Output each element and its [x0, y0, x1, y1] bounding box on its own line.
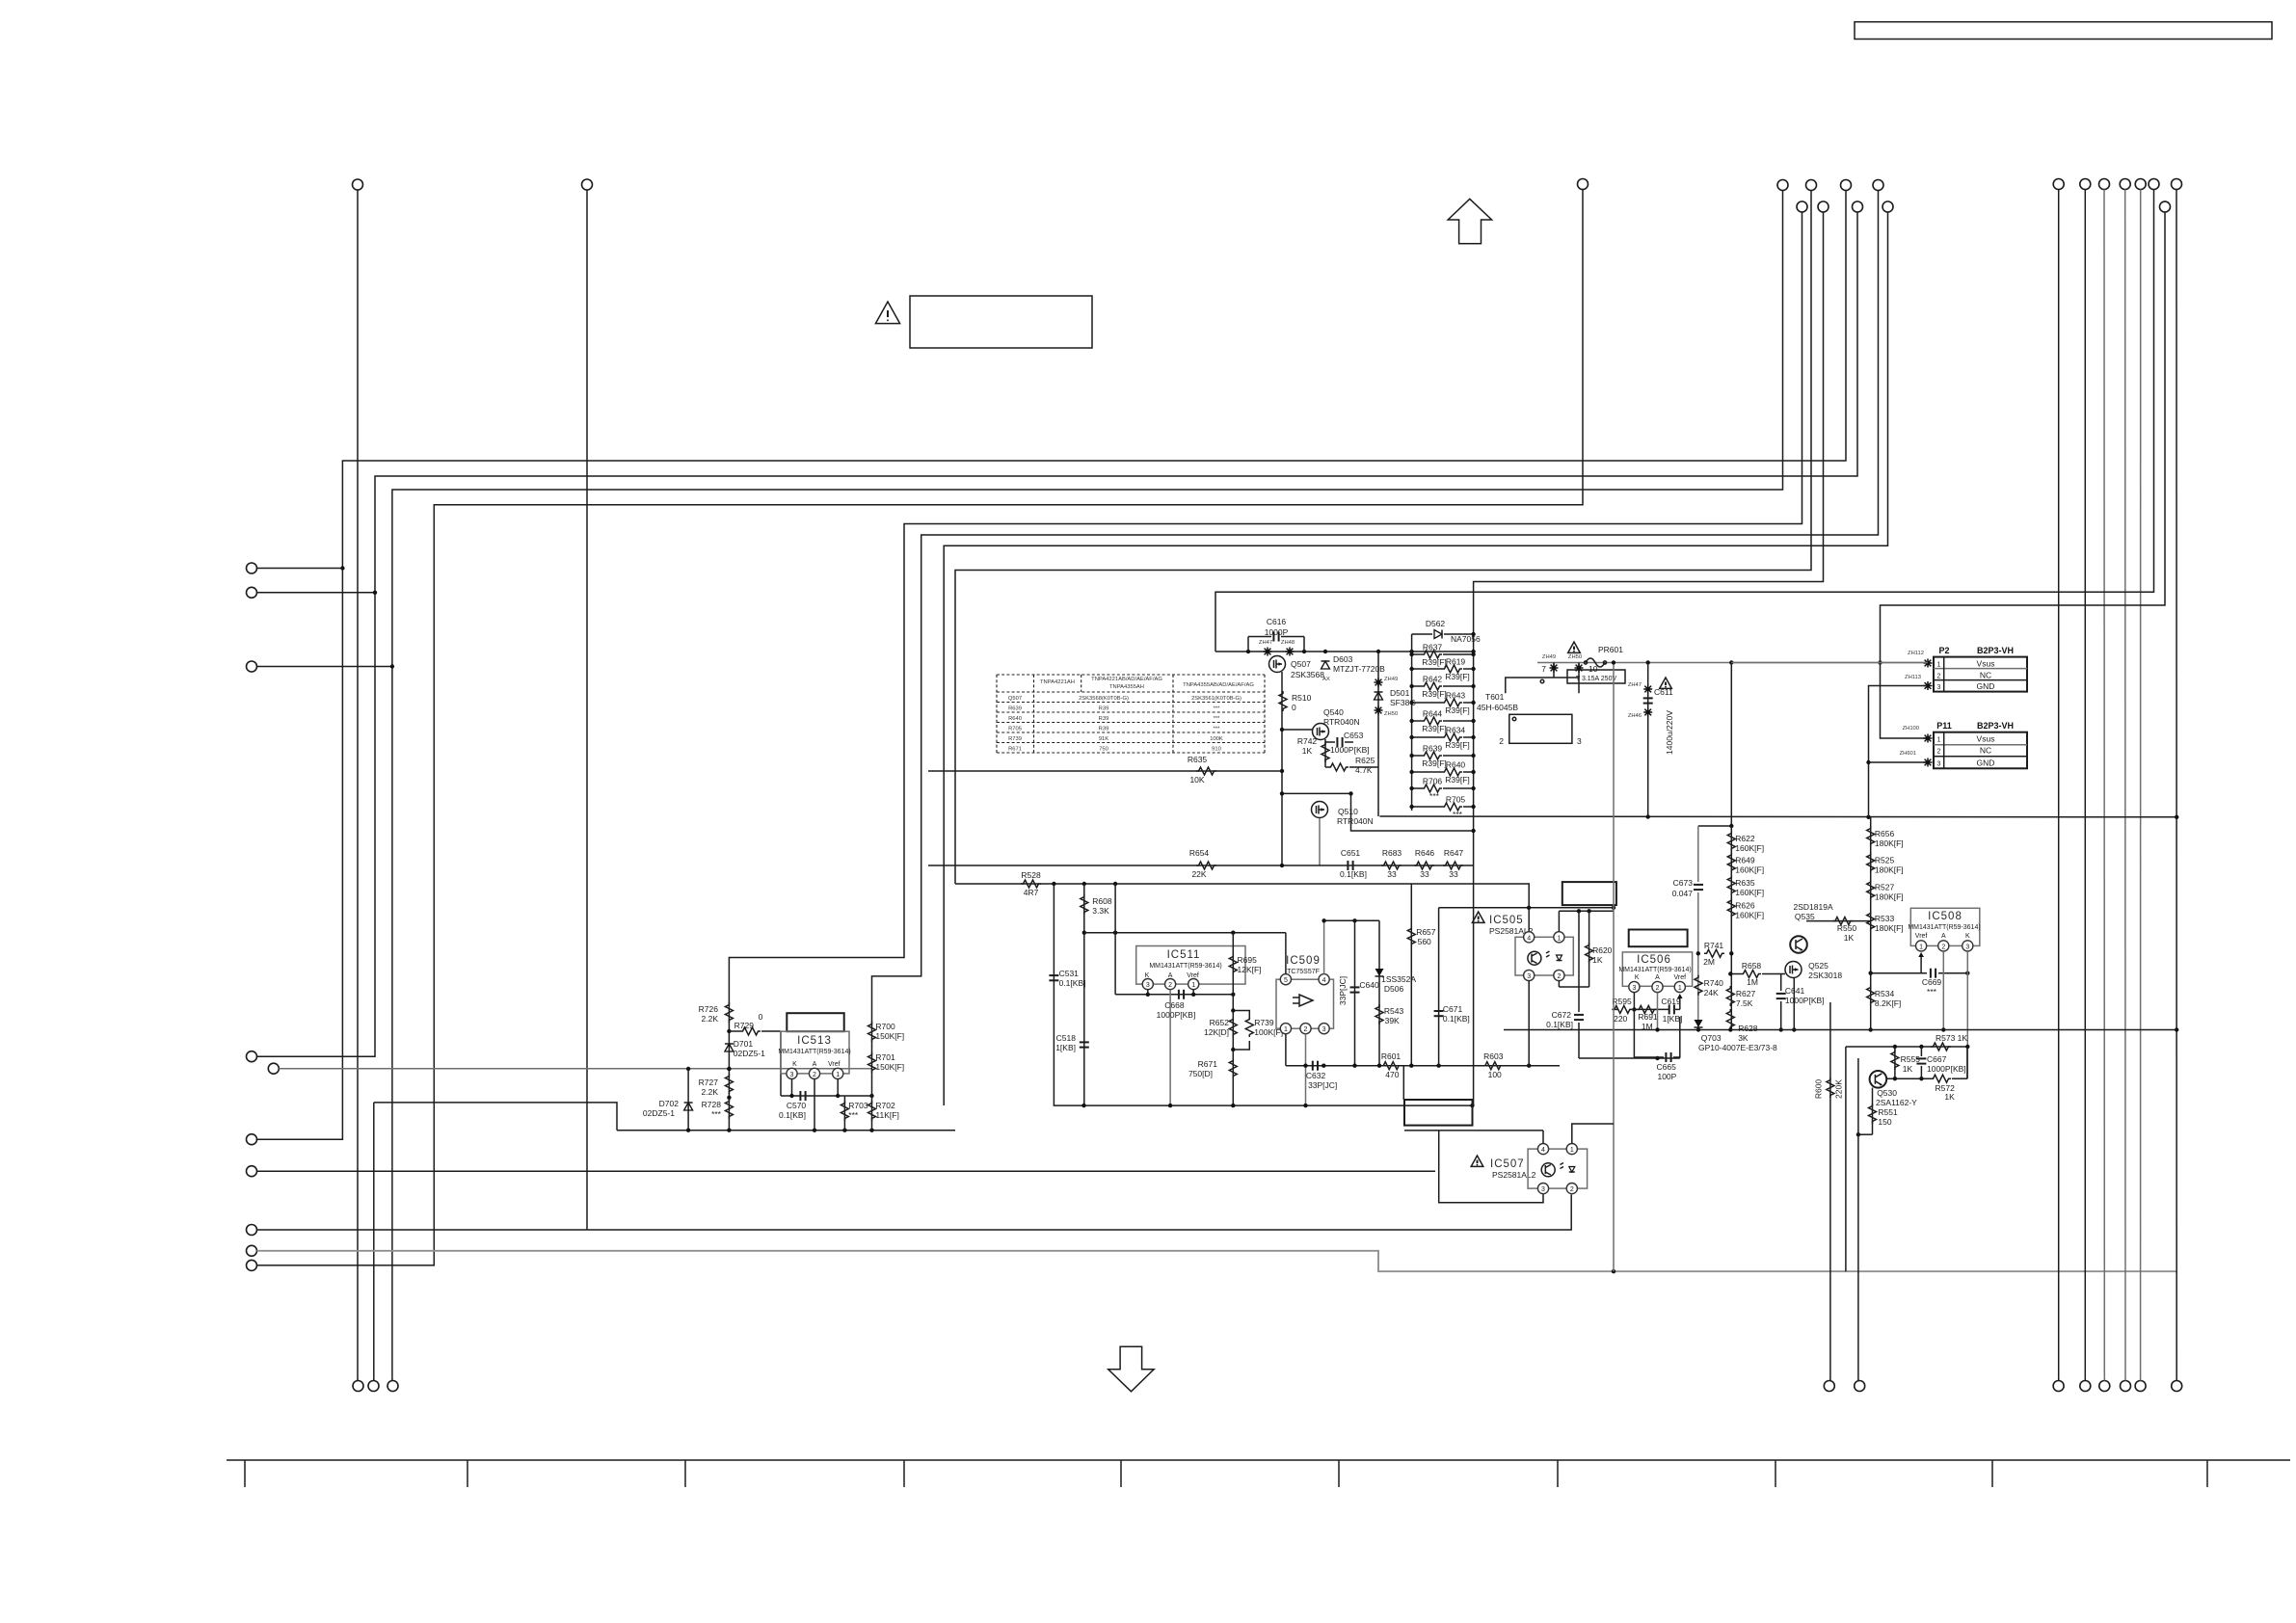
svg-text:C616: C616 — [1267, 617, 1287, 626]
svg-text:2SA1162-Y: 2SA1162-Y — [1876, 1098, 1917, 1107]
IC508 pin 1 — [1916, 941, 1927, 951]
wire IC509 pin4 up gray — [1323, 920, 1325, 973]
resistor R700 150K[F] — [868, 1022, 876, 1042]
svg-text:R740: R740 — [1704, 978, 1724, 988]
svg-text:ZH601: ZH601 — [1900, 751, 1916, 757]
svg-text:P2: P2 — [1938, 646, 1949, 655]
wire x1456 riser — [1402, 1066, 1404, 1100]
svg-text:R705: R705 — [1008, 726, 1022, 732]
svg-text:R608: R608 — [1092, 896, 1112, 906]
resistor R510 — [1279, 691, 1287, 711]
svg-text:TNPA4355AH: TNPA4355AH — [1109, 684, 1144, 690]
wire IC513 pins bottom loop — [781, 1095, 844, 1097]
resistor R628 3K — [1726, 1009, 1734, 1029]
svg-text:750: 750 — [1099, 746, 1108, 752]
svg-text:MM1431ATT(R59-3614): MM1431ATT(R59-3614) — [778, 1049, 850, 1055]
svg-text:K: K — [792, 1061, 797, 1068]
svg-text:T601: T601 — [1485, 692, 1505, 702]
wire ladder left rail — [1411, 634, 1413, 811]
terminal circle left 8 — [247, 1225, 257, 1236]
svg-text:ZH112: ZH112 — [1908, 651, 1924, 656]
fuse PR601 — [1568, 642, 1581, 652]
svg-text:0.1[KB]: 0.1[KB] — [1340, 869, 1367, 879]
svg-text:C672: C672 — [1552, 1010, 1572, 1020]
svg-text:22K: 22K — [1191, 869, 1206, 879]
capacitor C640 33P[JC] — [1350, 987, 1360, 992]
terminal circle top row2 — [1818, 201, 1829, 212]
resistor R647 33 — [1443, 862, 1463, 869]
capacitor C619 1[KB] — [1669, 1004, 1674, 1014]
resistor R742 1K — [1322, 742, 1329, 762]
svg-text:ZH48: ZH48 — [1281, 640, 1295, 646]
svg-text:1400u/220V: 1400u/220V — [1665, 710, 1674, 755]
wire D603 down to D501 — [1377, 652, 1379, 816]
svg-text:150K[F]: 150K[F] — [875, 1062, 904, 1072]
IC509 pin 4 — [1319, 974, 1329, 985]
resistor R600 220K vertical — [1829, 1002, 1831, 1381]
IC507 opto body — [1528, 1149, 1588, 1188]
svg-text:0: 0 — [759, 1012, 763, 1022]
resistor R626 160K[F] — [1727, 898, 1735, 918]
IC509 pin 1 — [1280, 1024, 1291, 1034]
svg-text:5: 5 — [1284, 977, 1288, 984]
svg-text:P11: P11 — [1936, 721, 1952, 731]
svg-text:1: 1 — [1919, 944, 1923, 950]
wire Q510 gate — [1282, 792, 1351, 794]
terminal circle bottom — [368, 1381, 379, 1392]
wire right bus 2258 vertical — [2176, 190, 2177, 1381]
svg-text:160K[F]: 160K[F] — [1735, 843, 1764, 853]
IC511 pin 1 — [1188, 979, 1199, 990]
wire terminal L6 row — [257, 1170, 1436, 1172]
svg-text:4R7: 4R7 — [1024, 888, 1039, 897]
terminal circle top row1 — [1777, 180, 1788, 191]
svg-text:MM1431ATT(R59-3614): MM1431ATT(R59-3614) — [1618, 967, 1691, 973]
wire fuse rail gray y687 — [1537, 662, 1931, 664]
IC511 MM1431ATT(R59-3614) — [1136, 946, 1245, 985]
IC509 pin 3 — [1319, 1024, 1329, 1034]
wire bottom rail y898 — [928, 865, 1474, 866]
svg-text:NC: NC — [1980, 746, 1991, 756]
wire net G — [944, 212, 1887, 1105]
wire bus X1 vertical — [357, 190, 359, 1381]
IC507 led — [1569, 1167, 1575, 1173]
svg-text:ZH47: ZH47 — [1259, 640, 1272, 646]
svg-text:A: A — [1655, 974, 1660, 981]
resistor R573 1K — [1931, 1043, 1951, 1051]
svg-text:C665: C665 — [1657, 1062, 1677, 1072]
svg-text:PR601: PR601 — [1598, 645, 1623, 654]
svg-text:PS2581AL2: PS2581AL2 — [1492, 1170, 1536, 1180]
terminal circle top right — [2149, 179, 2159, 190]
svg-text:R739: R739 — [1008, 736, 1022, 742]
capacitor C672 0.1[KB] — [1578, 911, 1580, 1012]
resistor R695 12K[F] — [1232, 933, 1234, 1105]
svg-text:C611: C611 — [1654, 687, 1673, 697]
terminal circle bottom — [1855, 1381, 1865, 1392]
resistor R635 10K — [1196, 767, 1216, 775]
wire net y628 (bus 2246 to P11 pin1) — [1881, 212, 2166, 738]
svg-text:R619: R619 — [1446, 657, 1466, 667]
svg-text:ZH50: ZH50 — [1568, 654, 1582, 660]
terminal circle top row2 — [1853, 201, 1863, 212]
terminal circle bottom — [2121, 1381, 2131, 1392]
IC513 pin 3 — [787, 1068, 797, 1078]
svg-text:D701: D701 — [734, 1039, 754, 1049]
svg-text:ZH49: ZH49 — [1384, 677, 1398, 682]
wire IC511 pin3 stub — [1147, 990, 1149, 995]
diode D701 02DZ5.1 — [725, 1044, 734, 1051]
svg-text:1M: 1M — [1747, 977, 1758, 987]
wire riser to bottom terminal 1929 — [1857, 1058, 1859, 1381]
terminal circle top right — [2172, 179, 2182, 190]
IC507 pin 4 — [1537, 1144, 1548, 1155]
warning note box — [910, 296, 1092, 348]
svg-text:1: 1 — [1937, 662, 1941, 669]
svg-text:R635: R635 — [1188, 755, 1208, 764]
svg-text:***: *** — [1429, 791, 1440, 801]
svg-text:C669: C669 — [1922, 977, 1942, 987]
svg-text:2SK3561(K0T0B-G): 2SK3561(K0T0B-G) — [1191, 696, 1241, 702]
terminal circle left 4 — [247, 1051, 257, 1062]
svg-text:2: 2 — [1937, 749, 1941, 756]
resistor R649 160K[F] — [1727, 852, 1735, 872]
resistor R550 1K — [1832, 918, 1853, 925]
terminal circle left 1 — [247, 563, 257, 573]
wire Q507 top rail y676 — [1215, 651, 1474, 652]
ruler tick 8 — [1775, 1460, 1776, 1487]
IC507 pin 3 — [1537, 1184, 1548, 1194]
svg-text:C632: C632 — [1306, 1071, 1326, 1080]
jumper ZH112 at P2 pin1 — [1924, 659, 1933, 668]
svg-text:100: 100 — [1488, 1070, 1502, 1079]
svg-text:R39: R39 — [1099, 716, 1109, 722]
svg-text:1000P[KB]: 1000P[KB] — [1927, 1064, 1966, 1074]
svg-text:B2P3-VH: B2P3-VH — [1977, 721, 2014, 731]
svg-text:R658: R658 — [1742, 961, 1762, 971]
IC507 warning label — [1471, 1156, 1483, 1166]
ruler tick 7 — [1557, 1460, 1559, 1487]
ruler tick 1 — [244, 1460, 246, 1487]
terminal circle top right — [2120, 179, 2130, 190]
wire Q535 collector to R550 — [1806, 920, 1871, 922]
resistor R701 150K[F] — [868, 1052, 876, 1073]
svg-text:0.1[KB]: 0.1[KB] — [1546, 1020, 1573, 1029]
wire R729 to IC513 box — [780, 1031, 782, 1096]
svg-text:1: 1 — [1937, 737, 1941, 744]
wire R528 row y917 — [955, 883, 1530, 885]
svg-text:R635: R635 — [1735, 878, 1755, 888]
svg-text:R706: R706 — [1423, 777, 1443, 786]
svg-text:R643: R643 — [1446, 691, 1466, 701]
svg-text:R626: R626 — [1735, 901, 1755, 911]
wire C640 column — [1354, 920, 1356, 1065]
svg-text:R628: R628 — [1738, 1024, 1758, 1033]
resistor R741 2M — [1704, 949, 1724, 957]
svg-text:R639: R639 — [1008, 705, 1022, 711]
wire IC506 pin3 down — [1633, 993, 1635, 1010]
wire right chain R656 column — [1870, 817, 1872, 973]
resistor R739 100K[F] parallel — [1233, 1011, 1249, 1020]
svg-text:R654: R654 — [1189, 848, 1210, 858]
svg-text:910: 910 — [1212, 746, 1221, 752]
svg-text:2M: 2M — [1703, 957, 1715, 967]
svg-text:D506: D506 — [1384, 984, 1404, 994]
wire IC505 pin1 up — [1558, 911, 1560, 931]
resistor R533 180K[F] — [1867, 911, 1875, 931]
wire R573 row — [1846, 1046, 1967, 1048]
transistor Q530 2SA1162-Y — [1870, 1071, 1887, 1088]
svg-text:R671: R671 — [1008, 746, 1022, 752]
wire y941 row — [1439, 907, 1614, 909]
wire vertical x1796 fuse to ladder — [1730, 663, 1732, 827]
svg-text:1K: 1K — [1844, 933, 1855, 943]
svg-text:***: *** — [1214, 726, 1221, 732]
svg-text:R727: R727 — [699, 1078, 719, 1087]
wire net B — [257, 212, 1858, 1056]
wire right bus 2183 vertical — [2103, 190, 2105, 1381]
wire T601 pin10 with jumper — [1578, 663, 1580, 678]
svg-text:Vref: Vref — [1915, 933, 1928, 940]
resistor R635 160K[F] — [1727, 875, 1735, 895]
wire IC509 pin5 up — [1285, 933, 1287, 974]
svg-text:R703: R703 — [848, 1101, 868, 1110]
svg-text:***: *** — [848, 1110, 859, 1120]
svg-text:GND: GND — [1977, 681, 1995, 691]
svg-text:ZH100: ZH100 — [1903, 726, 1919, 732]
svg-text:R550: R550 — [1837, 923, 1857, 933]
wire y945 gray row — [1559, 910, 1614, 912]
svg-text:D562: D562 — [1426, 619, 1446, 628]
svg-text:2: 2 — [1570, 1186, 1574, 1193]
IC509 pin 2 — [1300, 1024, 1311, 1034]
svg-text:7: 7 — [1541, 664, 1546, 674]
svg-text:8.2K[F]: 8.2K[F] — [1875, 998, 1901, 1008]
svg-text:R637: R637 — [1423, 643, 1443, 652]
svg-text:GP10-4007E-E3/73-8: GP10-4007E-E3/73-8 — [1698, 1043, 1777, 1052]
resistor R671 750[D] — [1229, 1058, 1237, 1078]
svg-text:MM1431ATT(R59-3614): MM1431ATT(R59-3614) — [1149, 963, 1221, 970]
svg-text:150K[F]: 150K[F] — [875, 1031, 904, 1041]
terminal circle bottom — [1824, 1381, 1834, 1392]
svg-text:R656: R656 — [1875, 829, 1895, 838]
svg-text:0.047: 0.047 — [1672, 889, 1694, 898]
wire D506 column — [1378, 920, 1380, 1065]
wire IC508 pin3 down — [1966, 951, 1968, 1078]
svg-text:IC505: IC505 — [1489, 915, 1524, 926]
terminal circle bottom — [2080, 1381, 2091, 1392]
wire stub terminal1 to net A — [257, 568, 343, 570]
svg-text:IC506: IC506 — [1637, 954, 1671, 966]
resistor R654 22K — [1196, 862, 1216, 869]
IC507 phototransistor — [1541, 1163, 1555, 1177]
svg-text:3: 3 — [1322, 1026, 1326, 1033]
transformer T601 secondary box — [1509, 714, 1572, 743]
svg-text:R527: R527 — [1875, 883, 1895, 892]
wire IC508 pin1 arrow — [1920, 954, 1922, 973]
wire terminal L4b gray row — [280, 1068, 872, 1070]
svg-text:4.7K: 4.7K — [1355, 765, 1373, 775]
svg-text:3: 3 — [1146, 982, 1150, 989]
wire net D (top terminal to left terminal) — [257, 190, 1584, 1265]
resistor R527 180K[F] — [1867, 880, 1875, 900]
svg-text:470: 470 — [1385, 1070, 1399, 1079]
svg-text:R742: R742 — [1297, 736, 1318, 746]
diode D506 1SS352A — [1375, 969, 1384, 976]
wire y1147 rail right end — [1470, 1104, 1474, 1107]
wire IC505 pin4 up — [1528, 884, 1530, 932]
resistor R608 3.3K — [1081, 894, 1088, 915]
jumper ZH100 at P11 pin1 — [1924, 734, 1933, 743]
svg-text:***: *** — [1214, 705, 1221, 711]
svg-text:R705: R705 — [1446, 795, 1466, 805]
terminal circle top row1 — [1873, 180, 1883, 191]
svg-text:R739: R739 — [1254, 1018, 1274, 1027]
wire main rail y1068 — [1504, 1029, 2176, 1031]
resistor R705 — [1412, 806, 1442, 808]
resistor R646 33 — [1414, 862, 1434, 869]
resistor R728 *** — [725, 1099, 733, 1119]
wire R595 row — [1614, 1008, 1618, 1010]
jumper ZH47 — [1264, 648, 1272, 656]
svg-text:2: 2 — [1656, 985, 1660, 992]
diode Q703 GP10-4007E-E3/73-8 — [1695, 1020, 1703, 1027]
fuse rating box T 3.15A 250V — [1567, 670, 1625, 683]
svg-text:3: 3 — [1937, 761, 1941, 768]
IC511 pin 3 — [1142, 979, 1153, 990]
svg-text:C531: C531 — [1059, 969, 1080, 978]
capacitor C518 1[KB] — [1080, 1042, 1089, 1047]
svg-text:IC509: IC509 — [1286, 955, 1321, 967]
svg-text:2.2K: 2.2K — [702, 1087, 719, 1097]
svg-text:150: 150 — [1878, 1117, 1891, 1127]
svg-text:R657: R657 — [1416, 927, 1436, 937]
capacitor C641 1000P[KB] — [1780, 974, 1782, 992]
resistor R620 1K — [1589, 911, 1590, 987]
svg-text:Vsus: Vsus — [1977, 734, 1995, 744]
wire bottom terminal 387 riser — [373, 1103, 375, 1381]
wire Q510 drain gray — [1319, 818, 1321, 865]
wire Q530 emitter row — [1886, 1078, 1931, 1079]
svg-text:R39[F]: R39[F] — [1422, 724, 1447, 733]
wire vertical x1674 fuse to IC507 — [1613, 663, 1615, 1272]
svg-text:R543: R543 — [1384, 1006, 1404, 1016]
svg-text:TNPA4221AH: TNPA4221AH — [1040, 679, 1075, 685]
wire IC511 pin2 down — [1169, 990, 1171, 1105]
wire IC506 pin2 down gray — [1657, 993, 1659, 1030]
resistor R543 39K — [1375, 1004, 1383, 1024]
svg-text:2SK3568(K0T0B-G): 2SK3568(K0T0B-G) — [1079, 696, 1129, 702]
resistor R634 — [1412, 736, 1442, 738]
svg-text:2SD1819A: 2SD1819A — [1794, 902, 1833, 912]
svg-text:3: 3 — [1965, 944, 1969, 950]
transistor Q510 RTR040N — [1312, 802, 1328, 818]
svg-text:91K: 91K — [1099, 736, 1108, 742]
IC507 pin 2 — [1566, 1184, 1577, 1194]
terminal circle top row2 — [1882, 201, 1893, 212]
svg-text:R640: R640 — [1008, 716, 1022, 722]
svg-text:R39[F]: R39[F] — [1422, 758, 1447, 768]
svg-text:1: 1 — [1284, 1026, 1288, 1033]
diode D501 SF38G — [1375, 692, 1383, 700]
terminal circle bus X2 top — [582, 179, 593, 190]
svg-text:R640: R640 — [1446, 760, 1466, 770]
wire net F — [872, 191, 1879, 1021]
IC505 pin 4 — [1524, 932, 1535, 943]
terminal circle net D top — [1578, 179, 1589, 190]
terminal circle top right — [2099, 179, 2110, 190]
svg-text:2: 2 — [1557, 973, 1561, 980]
capacitor C653 1000P[KB] — [1325, 741, 1335, 743]
resistor R652 12K[D] — [1229, 1017, 1237, 1037]
IC509 pin 5 — [1280, 974, 1291, 985]
svg-text:C641: C641 — [1785, 986, 1805, 996]
svg-text:160K[F]: 160K[F] — [1735, 865, 1764, 874]
wire net I (power rail column) — [1474, 212, 1824, 1105]
svg-text:Q507: Q507 — [1291, 659, 1311, 669]
svg-text:33P[JC]: 33P[JC] — [1308, 1080, 1337, 1090]
resistor R642 — [1412, 685, 1422, 687]
svg-text:R595: R595 — [1612, 997, 1632, 1006]
capacitor C665 100P loop — [1634, 1009, 1664, 1057]
wire bus X2 vertical — [586, 190, 588, 1230]
wire y1098 row under IC506 — [1579, 1057, 1680, 1059]
IC505 warning label — [1472, 912, 1484, 922]
terminal circle bottom — [2135, 1381, 2146, 1392]
svg-text:2: 2 — [1941, 944, 1945, 950]
svg-text:NA7056: NA7056 — [1451, 634, 1481, 644]
svg-text:4: 4 — [1527, 935, 1531, 942]
terminal circle left 10 — [247, 1260, 257, 1270]
svg-text:Q510: Q510 — [1338, 807, 1358, 816]
svg-text:Vref: Vref — [828, 1061, 841, 1068]
svg-text:R671: R671 — [1198, 1059, 1218, 1069]
svg-text:160K[F]: 160K[F] — [1735, 888, 1764, 897]
wire rail y1105 with C632 R601 R603 — [1286, 1065, 1560, 1067]
svg-text:1000P: 1000P — [1265, 627, 1289, 637]
svg-text:1K: 1K — [1903, 1064, 1913, 1074]
IC506 MM1431ATT(R59-3614) — [1622, 952, 1692, 986]
IC505 phototransistor — [1528, 951, 1541, 965]
svg-text:R39[F]: R39[F] — [1422, 657, 1447, 667]
svg-text:ZH46: ZH46 — [1628, 713, 1642, 719]
svg-text:180K[F]: 180K[F] — [1875, 923, 1904, 933]
terminal circle top row2 — [1797, 201, 1807, 212]
IC506 pin 3 — [1629, 981, 1640, 992]
terminal circle left 7 — [247, 1166, 257, 1177]
svg-text:R620: R620 — [1592, 945, 1613, 955]
wire IC511 pin1 stub — [1192, 990, 1194, 995]
svg-text:R695: R695 — [1238, 955, 1258, 965]
svg-text:160K[F]: 160K[F] — [1735, 911, 1764, 920]
svg-text:7.5K: 7.5K — [1736, 998, 1753, 1008]
svg-text:R683: R683 — [1382, 848, 1402, 858]
terminal circle top right lower — [2160, 201, 2171, 212]
svg-text:220: 220 — [1614, 1014, 1627, 1024]
svg-text:1: 1 — [836, 1072, 840, 1078]
svg-text:Q703: Q703 — [1701, 1033, 1722, 1043]
svg-text:R533: R533 — [1875, 914, 1895, 923]
svg-text:R534: R534 — [1875, 989, 1895, 998]
svg-text:R647: R647 — [1444, 848, 1464, 858]
transistor Q535 2SD1819A — [1790, 936, 1807, 953]
svg-text:R646: R646 — [1415, 848, 1435, 858]
wire terminal L7 row to IC507 pin2 — [257, 1195, 1572, 1231]
svg-text:AX: AX — [1322, 677, 1330, 682]
wire stub terminal3 to net C — [257, 666, 392, 668]
resistor R683 33 — [1381, 862, 1402, 869]
wire IC508 pin2 down — [1942, 951, 1944, 1030]
